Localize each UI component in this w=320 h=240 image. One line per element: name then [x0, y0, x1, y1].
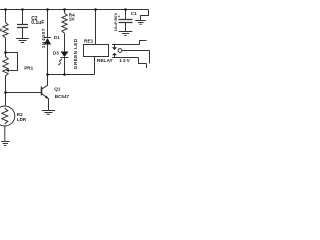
svg-text:Q1: Q1	[54, 86, 61, 91]
LDR R2 element	[2, 108, 8, 124]
relay contact pivot circle	[118, 49, 122, 53]
wire top rail	[0, 9, 149, 11]
svg-text:BC547: BC547	[55, 94, 70, 99]
wire LDR to ground	[4, 126, 6, 142]
svg-text:GREEN LED: GREEN LED	[73, 38, 79, 69]
svg-text:LDR: LDR	[17, 117, 27, 122]
relay contact NC exit wire	[140, 41, 147, 45]
diode D1 triangle	[44, 38, 51, 45]
ground top-right	[135, 21, 146, 25]
svg-text:0.1uF: 0.1uF	[31, 20, 44, 26]
wire D1 branch	[47, 10, 49, 38]
svg-text:1N4007: 1N4007	[41, 28, 46, 48]
relay contact NC line	[112, 45, 140, 48]
transistor Q1 collector wire	[42, 75, 48, 89]
relay contact NO line	[112, 55, 139, 57]
relay contact lower triangle	[112, 53, 117, 56]
relay contact common arm	[122, 51, 150, 64]
wire R1 to node	[5, 38, 7, 53]
relay contact upper triangle	[112, 47, 117, 50]
LED D3 light arrow 2	[59, 62, 61, 64]
LED D3 triangle	[61, 52, 69, 58]
transistor Q1 emitter	[42, 94, 49, 111]
wire C2 stub	[22, 10, 24, 25]
svg-text:D3: D3	[53, 51, 59, 56]
resistor R4	[62, 13, 67, 33]
diode D1 cathode bar	[44, 37, 51, 39]
svg-text:RELAY: RELAY	[97, 58, 114, 64]
resistor R1 (label cut at edge)	[3, 23, 8, 39]
LED D3 cathode bar	[61, 57, 69, 59]
relay RE1 coil box	[84, 45, 109, 57]
ground below LDR	[1, 142, 9, 146]
ground below C2	[16, 39, 29, 43]
capacitor C1 plates	[119, 20, 133, 23]
wire LDR top	[5, 93, 7, 107]
svg-text:C1: C1	[131, 11, 137, 16]
PR1 wiper arrowhead	[6, 69, 9, 72]
wire rail right hook to ground	[141, 10, 149, 21]
junction node dots	[4, 8, 7, 11]
relay contact NO exit wire	[139, 58, 147, 69]
wire left branch upper	[5, 10, 7, 23]
wire D1 to node wire	[47, 45, 49, 75]
wire base net	[6, 92, 42, 94]
svg-text:10uF/50V: 10uF/50V	[113, 12, 118, 31]
svg-text:K: K	[0, 28, 4, 34]
LED D3 light arrow 1	[60, 59, 62, 61]
ground below C1	[119, 32, 133, 36]
wire C1 to ground	[125, 23, 127, 32]
LDR R2 circle	[0, 106, 15, 126]
svg-text:+: +	[118, 14, 121, 19]
wire relay coil bottom	[94, 57, 96, 75]
wire LED to node wire	[64, 58, 66, 75]
svg-text:PR1: PR1	[24, 66, 33, 71]
ground below Q1 emitter	[42, 111, 55, 115]
preset PR1 element	[3, 53, 8, 93]
wire R4 stub	[64, 10, 66, 14]
wire C1 stub	[125, 10, 127, 20]
capacitor C2 plates	[17, 25, 28, 28]
svg-text:1K: 1K	[69, 16, 76, 21]
wire horizontal collector net	[48, 74, 95, 76]
svg-text:D1: D1	[54, 35, 60, 40]
transistor Q1 emitter arrowhead	[45, 96, 48, 99]
preset PR1 wiper loop	[6, 53, 18, 71]
wire relay coil top	[95, 10, 97, 45]
transistor Q1 base bar	[41, 87, 43, 96]
wire R4 to LED	[64, 33, 66, 51]
svg-text:RE1: RE1	[84, 38, 94, 44]
svg-text:12V: 12V	[119, 58, 131, 64]
wire C2 to ground	[22, 28, 24, 39]
